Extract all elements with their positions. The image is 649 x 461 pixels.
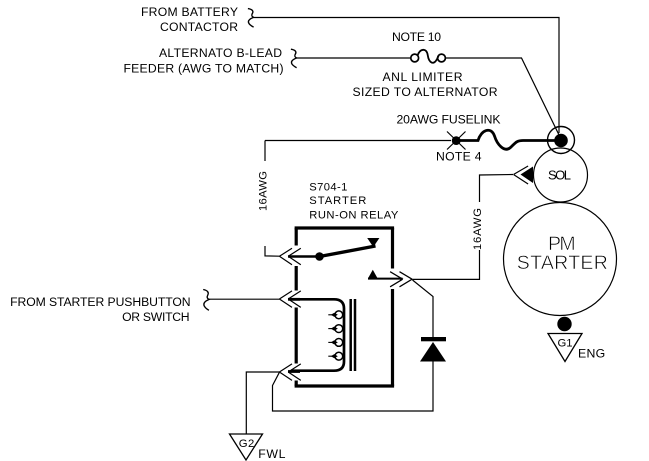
svg-text:STARTER: STARTER (309, 195, 366, 207)
wire: coil return to G2 ground (246, 372, 279, 434)
svg-text:16AWG: 16AWG (472, 208, 484, 250)
svg-text:RUN-ON RELAY: RUN-ON RELAY (309, 209, 399, 221)
svg-text:OR SWITCH: OR SWITCH (122, 310, 190, 324)
relay switch lever (320, 246, 376, 257)
svg-text:FROM STARTER PUSHBUTTON: FROM STARTER PUSHBUTTON (10, 295, 191, 309)
svg-text:SIZED TO ALTERNATOR: SIZED TO ALTERNATOR (353, 85, 498, 99)
svg-text:FEEDER (AWG TO MATCH): FEEDER (AWG TO MATCH) (124, 61, 284, 75)
svg-text:ENG: ENG (578, 347, 606, 361)
relay fixed contact (down arrow) (367, 238, 379, 247)
svg-text:G2: G2 (239, 438, 255, 450)
connector pin: relay coil - (bottom-left) (279, 364, 300, 381)
label ANL LIMITER SIZED TO ALTERNATOR (353, 70, 498, 99)
relay switch pivot (315, 252, 324, 261)
svg-text:ANL LIMITER: ANL LIMITER (383, 70, 463, 84)
label FROM BATTERY CONTACTOR (141, 5, 238, 34)
brace: alternator feeder entry (291, 49, 297, 67)
svg-text:16AWG: 16AWG (258, 171, 270, 211)
ground G2 (230, 434, 287, 461)
label ALTERNATO B-LEAD FEEDER (124, 46, 284, 75)
connector pin: relay output (right) (368, 272, 412, 287)
connector: solenoid coil terminal (514, 166, 534, 184)
wire: 16AWG drop from fuselink row (265, 141, 279, 257)
svg-text:SOL: SOL (548, 167, 571, 182)
svg-text:STARTER: STARTER (517, 252, 608, 274)
wire: alternator b-lead right segment to stud (446, 58, 561, 137)
svg-text:S704-1: S704-1 (309, 181, 347, 193)
starter motor PM STARTER (504, 203, 617, 316)
relay coil winding (291, 299, 344, 370)
svg-text:NOTE 10: NOTE 10 (392, 30, 441, 44)
svg-text:G1: G1 (557, 337, 572, 349)
wire: alternator b-lead left segment (297, 57, 411, 59)
svg-text:FWL: FWL (258, 447, 286, 461)
ANL limiter (411, 50, 446, 63)
wire: fuselink feeder row (265, 140, 451, 142)
wire: pushbutton to relay (209, 298, 280, 300)
svg-text:CONTACTOR: CONTACTOR (160, 20, 238, 34)
diode CR1 (420, 337, 446, 362)
label FROM STARTER PUSHBUTTON OR SWITCH (10, 295, 191, 324)
label S704-1 STARTER RUN-ON RELAY (309, 181, 399, 221)
wire: coil return to diode anode (273, 362, 434, 412)
wire: diode cathode to relay output (413, 280, 434, 337)
connector pin: relay coil + (middle-left) (279, 291, 300, 308)
fuselink squiggle (456, 130, 555, 149)
ground G1 at starter case (548, 317, 606, 362)
solenoid SOL (534, 148, 588, 202)
relay NO contact (up arrow) (368, 270, 377, 278)
brace: pushbutton entry (203, 290, 209, 311)
splice X at NOTE 4 (447, 132, 466, 150)
wire: battery feeder to solenoid stud (254, 18, 560, 134)
svg-text:NOTE 4: NOTE 4 (436, 149, 482, 163)
svg-text:FROM BATTERY: FROM BATTERY (141, 5, 238, 19)
connector pin: relay terminal top-left (279, 248, 316, 265)
relay box K1 (295, 228, 395, 386)
wire: relay output 16AWG to solenoid (412, 175, 513, 280)
brace: battery feeder entry (248, 9, 254, 28)
terminal: solenoid battery stud (548, 127, 575, 154)
relay core (351, 299, 355, 371)
svg-text:ALTERNATO B-LEAD: ALTERNATO B-LEAD (159, 46, 282, 60)
svg-text:20AWG FUSELINK: 20AWG FUSELINK (397, 113, 501, 127)
